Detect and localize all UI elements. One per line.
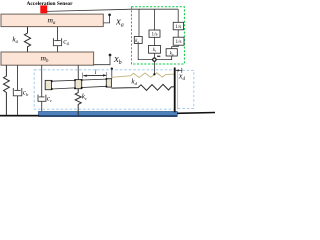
minus sign at summing junction bbox=[157, 56, 160, 57]
spring k_c (middle electrode to ground) bbox=[75, 89, 81, 116]
spring k_d (tan, electrode to tip) bbox=[112, 73, 175, 78]
wire from sensor marker to controller input bbox=[47, 9, 179, 11]
damper c_c (m_b to base, inside sensing enclosure) bbox=[41, 65, 43, 97]
svg-text:1/s: 1/s bbox=[175, 24, 181, 30]
integrator block 1/s (middle branch) bbox=[149, 30, 160, 37]
mass m_b bbox=[1, 52, 94, 65]
ground line right segment bbox=[177, 112, 215, 114]
wire: controller right branch drop bbox=[177, 9, 179, 22]
controller enclosure (green dashed box) bbox=[132, 7, 185, 64]
ground line left segment bbox=[0, 115, 39, 117]
spring k_b (m_b to ground) bbox=[4, 65, 10, 115]
wire: controller middle branch drop bbox=[153, 9, 155, 30]
damper c_a (between m_a and m_b) bbox=[57, 27, 59, 41]
gain block k_a (controller left branch) bbox=[134, 37, 142, 44]
integrator block 1/s (right branch, second) bbox=[173, 37, 184, 45]
lower spring (electrode to tip, black) bbox=[111, 84, 174, 90]
node x_d (tip displacement arrow and tick) bbox=[176, 69, 182, 71]
junction dot on spring k_d bbox=[153, 73, 155, 75]
wire gain k_b to summing junction bbox=[156, 56, 172, 60]
damper c_b (m_b to ground) bbox=[17, 65, 19, 90]
svg-text:1/s: 1/s bbox=[175, 39, 181, 45]
svg-text:Acceleration Sensor: Acceleration Sensor bbox=[27, 1, 74, 7]
wire: upper electrode rail bbox=[52, 79, 107, 81]
wire integrator to gain k_b bbox=[172, 45, 179, 49]
svg-text:l: l bbox=[95, 69, 97, 76]
node x_b (displacement marker of m_b) bbox=[94, 55, 111, 64]
spring k_a (between m_a and m_b) bbox=[24, 27, 30, 52]
sensing-capacitor enclosure (light blue dashed box) bbox=[34, 70, 177, 109]
svg-text:kt: kt bbox=[153, 48, 156, 53]
wire: controller output to spring k_d bbox=[153, 61, 155, 74]
base block (blue bar) bbox=[38, 111, 177, 115]
electrode block left bbox=[45, 80, 51, 89]
gap dimension l (extension ticks, arrowed line) bbox=[82, 73, 84, 79]
svg-text:kb: kb bbox=[170, 52, 174, 57]
wire: controller left branch drop bbox=[138, 9, 140, 36]
svg-text:ka: ka bbox=[135, 39, 139, 44]
wire: lower electrode rail bbox=[52, 86, 107, 89]
tip enclosure (light blue dashed box) bbox=[178, 70, 194, 108]
wire gain k_t to summing junction bbox=[153, 53, 155, 58]
wire between right-branch integrators bbox=[177, 30, 179, 37]
node: spring k_d anchor on right electrode bbox=[111, 67, 113, 69]
tip bar (thick vertical line into base) bbox=[174, 68, 176, 113]
integrator block 1/s (right branch, first) bbox=[173, 22, 183, 30]
mass m_a bbox=[1, 14, 103, 27]
summing junction bbox=[153, 58, 156, 61]
gain block k_b (right branch) bbox=[166, 49, 177, 56]
wire from m_b down to middle electrode bbox=[77, 65, 79, 79]
electrode block middle bbox=[75, 80, 82, 89]
svg-text:1/s: 1/s bbox=[151, 32, 157, 38]
gain block k_t (middle branch) bbox=[149, 46, 161, 54]
wire integrator to gain k_t bbox=[153, 37, 155, 45]
junction dots on electrode rails bbox=[51, 80, 53, 82]
electrode block right bbox=[106, 79, 111, 87]
node x_a (displacement marker of m_a) bbox=[103, 15, 109, 23]
sensor marker (red square) bbox=[40, 5, 47, 13]
wire from gain k_a to summing junction bbox=[138, 44, 153, 60]
